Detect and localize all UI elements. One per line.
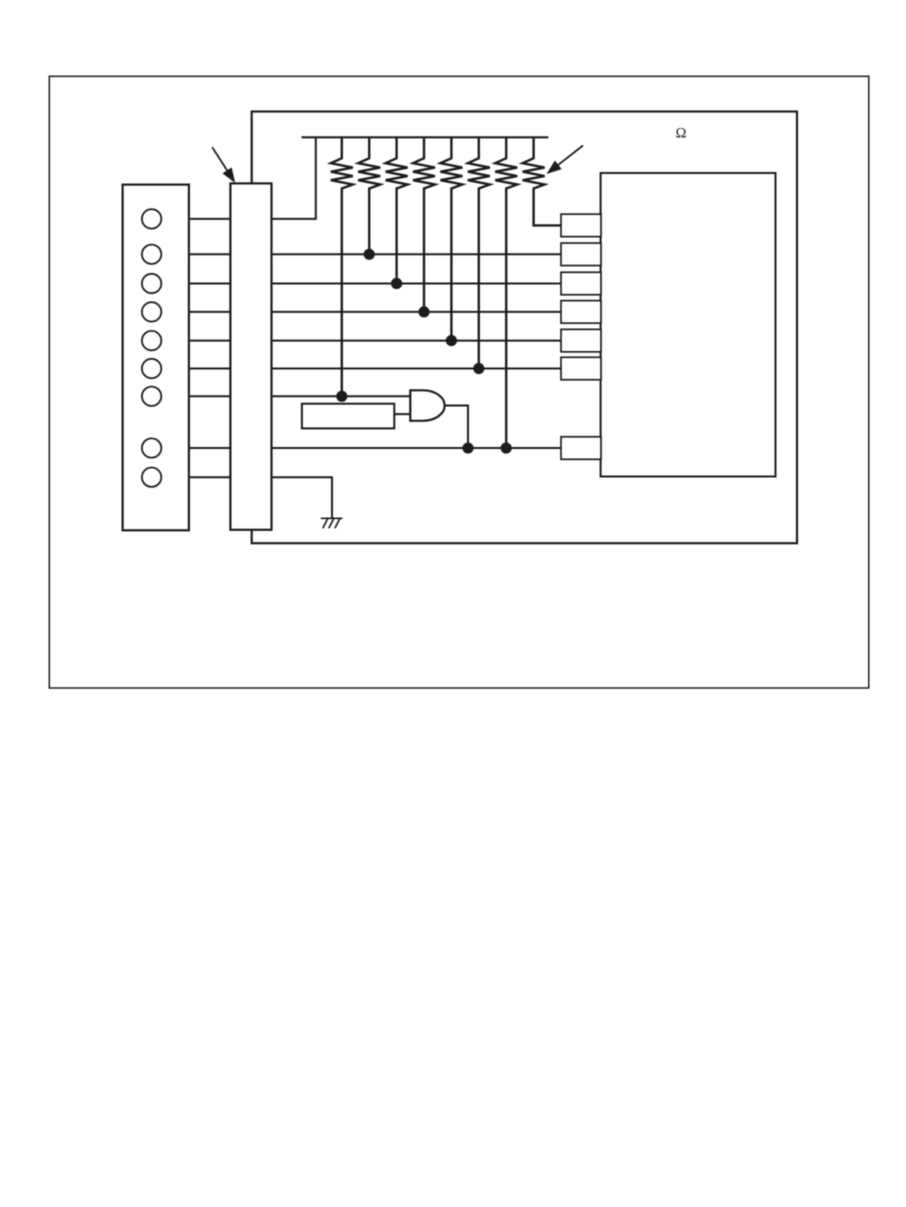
wire line3 — [161, 283, 561, 285]
pin box 2 — [561, 243, 601, 265]
wire line1 — [161, 218, 271, 220]
pull-up bus wire — [302, 136, 549, 138]
pin circle 1 — [142, 209, 161, 228]
wire line5 — [161, 340, 561, 342]
pin box 5 — [561, 329, 601, 352]
pin circle 3 — [142, 274, 161, 293]
resistor R1 — [331, 137, 353, 396]
pin circle 5 — [142, 331, 161, 350]
IC U3 — [601, 173, 776, 477]
wire line8 — [161, 447, 561, 449]
junction R3 line3 — [391, 278, 402, 289]
connector J1 — [123, 185, 189, 531]
wire line6 — [161, 368, 561, 370]
junction R5 line5 — [446, 335, 457, 346]
resistor R4 — [413, 137, 435, 312]
wire bus to line1 — [272, 137, 316, 219]
pin circle 4 — [142, 302, 161, 321]
resistor R5 — [440, 137, 462, 340]
resistor R8 — [523, 137, 561, 225]
wire line7 — [161, 395, 410, 397]
junction R7 line8 — [501, 442, 512, 453]
pin box 6 — [561, 357, 601, 380]
and gate U2 — [410, 390, 444, 421]
pin circle 6 — [142, 359, 161, 378]
ground — [321, 518, 343, 528]
wire line9 to ground — [161, 477, 332, 518]
buffer U1 — [230, 183, 271, 529]
arrow to buffer — [212, 147, 235, 183]
component box — [302, 404, 394, 429]
resistor R6 — [468, 137, 490, 368]
pin circle 9 — [142, 468, 161, 487]
wire box to gate — [394, 413, 410, 415]
pin box 7 — [561, 437, 601, 460]
resistor R2 — [358, 137, 380, 254]
figure frame — [49, 76, 869, 688]
wire line2 — [161, 253, 561, 255]
pin circle 2 — [142, 245, 161, 264]
resistor R3 — [386, 137, 408, 283]
junction R6 line6 — [473, 363, 484, 374]
junction R4 line4 — [418, 306, 429, 317]
pin box 3 — [561, 272, 601, 295]
junction gate line8 — [462, 442, 473, 453]
svg-text:Ω: Ω — [676, 126, 687, 142]
board outline — [252, 112, 797, 544]
pin circle 8 — [142, 438, 161, 457]
pin box 4 — [561, 301, 601, 324]
wire gate output — [445, 406, 468, 449]
resistor R7 — [495, 137, 517, 448]
junction R2 line2 — [364, 249, 375, 260]
pin box 1 — [561, 214, 601, 237]
junction R1 line7 — [336, 391, 347, 402]
pin circle 7 — [142, 387, 161, 406]
arrow to R8 — [547, 146, 584, 175]
wire line4 — [161, 311, 561, 313]
